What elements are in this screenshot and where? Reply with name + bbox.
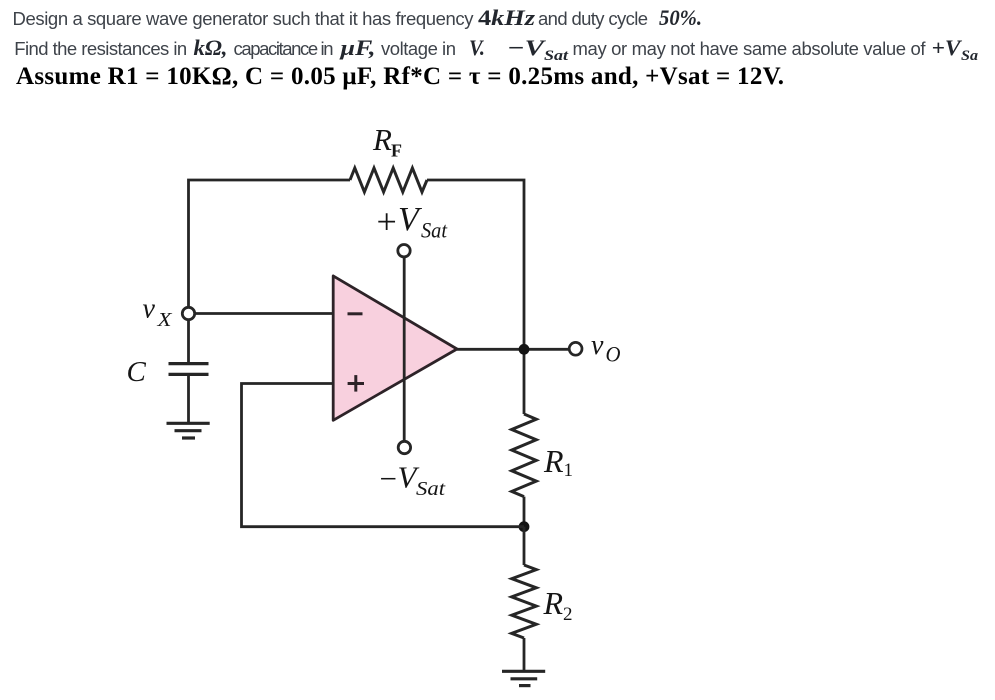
svg-text:4kHz: 4kHz xyxy=(478,5,536,30)
text line 1 xyxy=(13,5,703,30)
svg-text:v: v xyxy=(591,330,604,361)
wire: feedback left (vX up and across to RF) xyxy=(189,180,351,308)
terminal +VSat xyxy=(398,245,410,257)
ground (below C) xyxy=(167,423,210,438)
wire: vX down to capacitor xyxy=(187,320,190,362)
resistor R1 xyxy=(512,414,537,497)
svg-text:F: F xyxy=(391,141,402,161)
svg-text:−V: −V xyxy=(507,35,547,60)
svg-text:50%.: 50%. xyxy=(659,5,702,30)
terminal -VSat xyxy=(398,441,410,453)
op-amp plus input symbol xyxy=(348,375,364,392)
svg-text:and duty cycle: and duty cycle xyxy=(538,8,648,29)
svg-text:O: O xyxy=(606,341,621,366)
svg-text:capacitance in: capacitance in xyxy=(234,38,334,59)
svg-text:R: R xyxy=(543,443,564,479)
label R2 xyxy=(543,585,573,625)
wire: op-amp output xyxy=(457,348,569,351)
svg-text:1: 1 xyxy=(564,460,574,481)
svg-text:kΩ,: kΩ, xyxy=(194,35,228,60)
svg-text:+V: +V xyxy=(932,35,963,60)
wire: R1 to junction xyxy=(523,497,526,527)
svg-text:Sat: Sat xyxy=(416,478,445,500)
label +VSat xyxy=(377,201,448,243)
wire: RF to right corner and down to output node xyxy=(427,180,524,414)
svg-text:+: + xyxy=(377,202,397,242)
svg-text:v: v xyxy=(143,294,156,325)
svg-text:Sat: Sat xyxy=(421,218,448,243)
wire: capacitor to ground xyxy=(187,376,190,423)
svg-text:Sat: Sat xyxy=(544,48,569,64)
label RF xyxy=(372,122,402,161)
svg-text:Find the resistances in: Find the resistances in xyxy=(14,38,187,59)
text line 2 xyxy=(14,35,978,64)
svg-text:2: 2 xyxy=(563,604,573,625)
junction output node xyxy=(519,344,530,355)
text line 3 xyxy=(16,63,784,90)
svg-text:Design a square wave generator: Design a square wave generator such that… xyxy=(13,8,475,29)
svg-text:voltage in: voltage in xyxy=(381,38,456,59)
label R1 xyxy=(543,443,573,481)
svg-text:X: X xyxy=(156,309,172,331)
svg-text:V.: V. xyxy=(469,35,485,60)
svg-text:R: R xyxy=(372,122,392,157)
svg-text:C: C xyxy=(127,356,147,388)
label vX xyxy=(143,294,173,332)
resistor R2 xyxy=(512,565,537,638)
wire: vX to minus input xyxy=(195,312,334,315)
capacitor C xyxy=(169,364,209,375)
resistor RF xyxy=(350,168,427,192)
wire: junction left and up to plus input xyxy=(242,384,525,527)
node vO terminal xyxy=(569,342,582,355)
label -VSat xyxy=(380,460,446,501)
svg-text:μF,: μF, xyxy=(339,35,375,60)
ground (below R2) xyxy=(502,671,545,685)
node vX terminal xyxy=(182,307,194,319)
wire: R2 to ground xyxy=(523,638,526,671)
op-amp minus input symbol xyxy=(348,312,363,315)
svg-text:−: − xyxy=(380,461,397,496)
svg-text:may or may not have same absol: may or may not have same absolute value … xyxy=(573,38,927,59)
op-amp U1 xyxy=(333,276,457,420)
junction feedback node xyxy=(519,521,530,532)
wire: junction down to R2 xyxy=(523,527,526,565)
label vO xyxy=(591,330,621,366)
svg-text:R: R xyxy=(543,585,564,621)
svg-text:Assume R1 = 10KΩ, C = 0.05 μF,: Assume R1 = 10KΩ, C = 0.05 μF, Rf*C = τ … xyxy=(16,63,784,90)
svg-text:Sa: Sa xyxy=(961,48,979,64)
wire: supply rail through op-amp xyxy=(403,257,406,441)
